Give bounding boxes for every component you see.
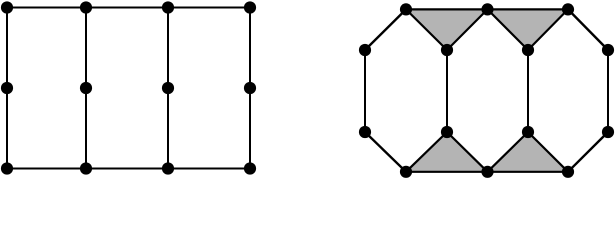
node right-graph bottom 1 [400,166,412,178]
wire left-grid vertical column 2 [85,8,87,169]
node left-grid middle row 3 [162,82,174,94]
node right-graph lower apex 1 [441,126,453,138]
node right-graph upper apex 2 [522,44,534,56]
node right-graph left shoulder [359,44,371,56]
node left-grid top row 3 [162,1,174,13]
node right-graph bottom 2 [481,166,493,178]
node left-grid middle row 1 [1,82,13,94]
node left-grid bottom row 1 [1,162,13,174]
node right-graph top 3 [562,3,574,15]
node right-graph top 2 [481,3,493,15]
node left-grid bottom row 2 [80,162,92,174]
wire right-graph left vertical [364,50,366,132]
wire right-graph vertical 3 [527,50,529,132]
wire left-grid top horizontal [7,7,250,9]
node right-graph top 1 [400,3,412,15]
wire left-grid vertical column 3 [167,8,169,169]
node left-grid bottom row 3 [162,162,174,174]
wire right-graph upper-right diagonal [568,9,608,50]
node left-grid top row 2 [80,1,92,13]
wire left-grid vertical column 1 [6,8,8,169]
node right-graph lower right [602,126,614,138]
wire right-graph upper-left diagonal [365,9,406,50]
wire right-graph lower-right diagonal [568,132,608,172]
node left-grid top row 4 [244,1,256,13]
shaded triangle top-left [406,9,488,50]
node left-grid bottom row 4 [244,162,256,174]
wire right-graph vertical 2 [446,50,448,132]
shaded triangle bottom-right [488,132,569,172]
node left-grid middle row 4 [244,82,256,94]
node right-graph right shoulder [602,44,614,56]
shaded triangle bottom-left [406,132,488,172]
node right-graph lower apex 2 [522,126,534,138]
wire left-grid bottom horizontal [7,168,250,170]
node right-graph upper apex 1 [441,44,453,56]
node right-graph bottom 3 [562,166,574,178]
node right-graph lower left [359,126,371,138]
wire right-graph right vertical [607,50,609,132]
node left-grid middle row 2 [80,82,92,94]
shaded triangle top-right [488,9,569,50]
wire right-graph lower-left diagonal [365,132,406,172]
wire left-grid vertical column 4 [249,8,251,169]
node left-grid top row 1 [1,1,13,13]
